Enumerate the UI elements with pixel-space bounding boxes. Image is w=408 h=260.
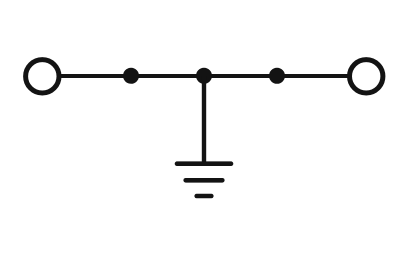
wire: horizontal bus (59, 74, 349, 78)
terminal right (screw clamp circle) (350, 60, 383, 93)
junction dot center (196, 68, 212, 84)
ground: bottom bar (197, 194, 212, 199)
ground: top bar (177, 161, 231, 166)
wire: vertical drop to ground (202, 76, 206, 164)
terminal left (screw clamp circle) (26, 60, 59, 93)
junction dot right (269, 68, 285, 84)
ground: middle bar (186, 178, 223, 183)
junction dot left (123, 68, 139, 84)
